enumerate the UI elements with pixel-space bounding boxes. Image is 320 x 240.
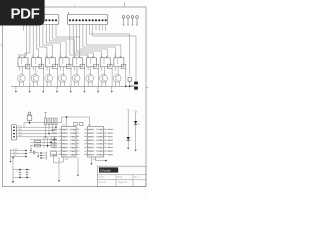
title text field: [99, 167, 118, 172]
wire from C5 box: [54, 156, 60, 163]
svg-text:PDF: PDF: [10, 5, 39, 22]
svg-text:Y7: Y7: [108, 154, 110, 156]
sheet border: [0, 2, 148, 186]
title block: [97, 166, 146, 186]
transistor Q3: [45, 74, 53, 82]
svg-text:2-Kanäle: 2-Kanäle: [100, 168, 111, 172]
svg-text:11: 11: [104, 146, 106, 148]
net ground rail: [11, 85, 134, 87]
svg-text:K6: K6: [87, 55, 89, 57]
wires from J3: [17, 126, 57, 138]
capacitor C8: [74, 122, 77, 125]
LED D2 string: [127, 110, 133, 150]
wire U2 ground: [77, 157, 79, 177]
ground arrow 3: [42, 86, 44, 92]
test point TP2: [127, 16, 130, 26]
svg-text:RXD: RXD: [18, 129, 23, 131]
svg-text:16: 16: [77, 128, 79, 130]
wire cell interconnect: [33, 67, 43, 87]
ground arrow 6: [83, 86, 85, 92]
svg-text:OUT6: OUT6: [53, 147, 58, 149]
junction on rail: [125, 86, 127, 88]
svg-text:K2: K2: [32, 55, 34, 57]
transistor Q2: [31, 74, 39, 82]
ground arrow 7: [97, 86, 99, 92]
svg-text:OUT3: OUT3: [53, 136, 58, 138]
wire U1 pin drop: [59, 157, 64, 162]
IC U2: [84, 125, 107, 157]
svg-text:14: 14: [77, 135, 79, 137]
test point TP1: [122, 16, 125, 26]
svg-text:GND: GND: [18, 135, 23, 137]
wire cell interconnect: [61, 67, 71, 87]
ground arrow bottom-left: [12, 178, 15, 184]
svg-text:OUT1: OUT1: [53, 129, 58, 131]
title block fields: [99, 176, 140, 185]
supply arrow node: [12, 156, 14, 169]
net labels left of U1: [52, 129, 58, 157]
wire cell interconnect: [74, 67, 84, 87]
relay K1: [18, 55, 30, 69]
wire bundle from J2 to driver cells: [70, 31, 136, 78]
wire bundle from J1 to driver cells: [20, 31, 80, 58]
svg-text:Y4: Y4: [108, 144, 110, 146]
fuse F1: [27, 112, 32, 123]
net labels right of U2: [108, 129, 113, 157]
transistor Q6: [86, 74, 94, 82]
capacitor C1 polarized: [131, 77, 138, 91]
IC U1: [58, 125, 80, 157]
svg-text:Y3: Y3: [108, 140, 110, 142]
svg-text:Y6: Y6: [108, 151, 110, 153]
svg-text:13: 13: [77, 139, 79, 141]
wire cell interconnect: [20, 67, 30, 87]
test point TP3: [131, 16, 134, 26]
relay K7: [100, 55, 112, 69]
relay K4: [59, 55, 71, 69]
connector J1: [21, 15, 59, 31]
net bus: [24, 116, 90, 127]
svg-text:04.02.11: 04.02.11: [99, 182, 106, 184]
svg-text:9: 9: [77, 153, 78, 155]
svg-text:Sheet: 1/1: Sheet: 1/1: [118, 181, 127, 184]
svg-text:TXD: TXD: [18, 132, 22, 134]
ground arrow 5: [70, 86, 72, 92]
wire cell interconnect: [47, 67, 57, 87]
svg-text:K1: K1: [18, 55, 20, 57]
svg-text:15: 15: [77, 132, 79, 134]
net stub group N1: [9, 149, 26, 163]
ground arrow 8: [111, 86, 113, 92]
svg-text:OUT5: OUT5: [53, 144, 58, 146]
svg-text:VCC: VCC: [18, 126, 23, 128]
wire cluster with C5 C6: [30, 138, 57, 157]
connector J2: [68, 12, 108, 31]
svg-text:Rev. 1: Rev. 1: [134, 177, 139, 179]
svg-text:MISO: MISO: [13, 152, 18, 154]
wire cell interconnect: [102, 67, 112, 87]
ground arrow 4: [56, 86, 58, 92]
svg-text:10: 10: [77, 150, 79, 152]
svg-text:12: 12: [77, 143, 79, 145]
wire cell interconnect: [116, 67, 126, 87]
svg-text:Y5: Y5: [108, 147, 110, 149]
capacitor C7: [29, 149, 39, 157]
svg-text:MOSI: MOSI: [13, 149, 18, 151]
transistor Q1: [17, 74, 25, 82]
ground arrow 2: [29, 86, 31, 92]
resistor network RN1: [44, 112, 57, 137]
svg-text:11: 11: [77, 146, 79, 148]
svg-text:10: 10: [104, 150, 106, 152]
test point TP4: [136, 16, 139, 26]
svg-text:Y2: Y2: [108, 136, 110, 138]
PDF badge overlay: [0, 0, 45, 26]
relay K2: [32, 55, 44, 69]
svg-text:K4: K4: [59, 55, 61, 57]
LED D3 string: [134, 111, 140, 152]
svg-text:15: 15: [104, 132, 106, 134]
capacitor C3: [13, 169, 31, 179]
transistor Q4: [59, 74, 67, 82]
wire U2 drop: [90, 157, 106, 165]
transistor Q7: [100, 74, 108, 82]
transistor Q8: [113, 74, 121, 82]
connector J3: [12, 125, 17, 141]
svg-text:13: 13: [104, 139, 106, 141]
svg-text:Datum:: Datum:: [99, 176, 106, 179]
svg-text:OUT2: OUT2: [53, 133, 58, 135]
svg-text:K8: K8: [114, 55, 116, 57]
relay K5: [73, 55, 85, 69]
svg-text:14: 14: [104, 135, 106, 137]
svg-text:12: 12: [104, 143, 106, 145]
relay K3: [45, 55, 57, 69]
svg-text:OUT7: OUT7: [53, 151, 58, 153]
svg-text:C7: C7: [30, 149, 32, 151]
svg-text:OUT8: OUT8: [53, 154, 58, 156]
svg-text:OUT4: OUT4: [53, 140, 58, 142]
capacitor C9: [80, 122, 83, 125]
svg-text:Bearb.:: Bearb.:: [117, 176, 124, 179]
svg-text:K3: K3: [46, 55, 48, 57]
wire cell interconnect: [88, 67, 98, 87]
svg-text:K7: K7: [100, 55, 102, 57]
resistor R9: [128, 75, 132, 88]
wire U1 ground: [58, 157, 60, 182]
svg-text:Y1: Y1: [108, 133, 110, 135]
svg-text:16: 16: [104, 128, 106, 130]
svg-text:gn: gn: [138, 124, 140, 126]
net stub group N2: [40, 152, 46, 161]
relay K6: [87, 55, 99, 69]
ground arrow 1: [15, 86, 17, 92]
svg-text:K5: K5: [73, 55, 75, 57]
transistor Q5: [72, 74, 80, 82]
svg-text:Y0: Y0: [108, 129, 110, 131]
capacitor C4: [26, 169, 29, 179]
relay K8: [114, 55, 126, 69]
